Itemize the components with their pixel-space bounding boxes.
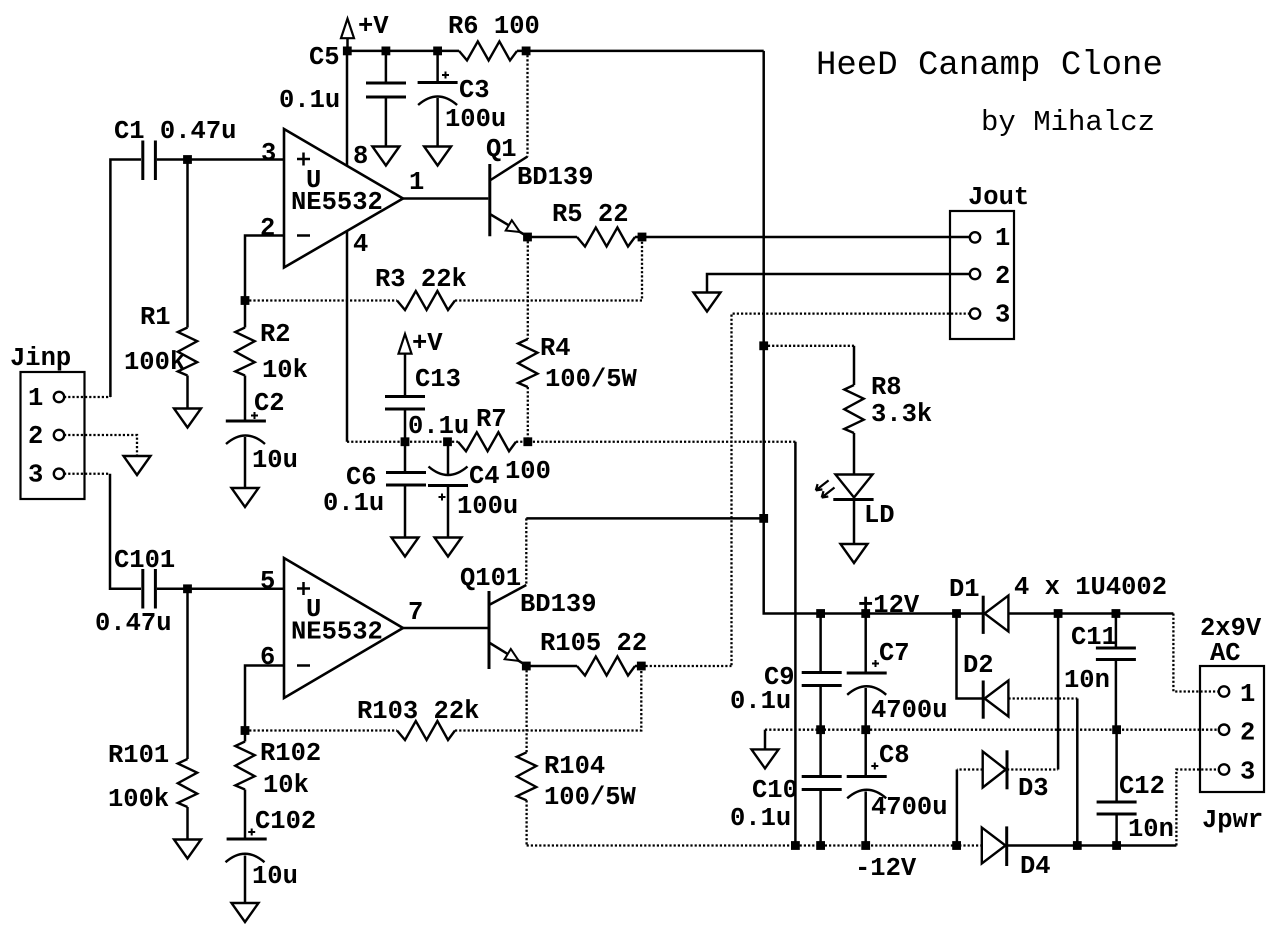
node C10 bottom: [816, 841, 825, 850]
svg-text:Q101: Q101: [460, 564, 521, 593]
wire R1 to ground: [186, 376, 189, 409]
svg-text:10k: 10k: [262, 356, 308, 385]
capacitor C6: [386, 443, 426, 537]
svg-text:C102: C102: [255, 807, 316, 836]
svg-text:C11: C11: [1071, 623, 1117, 652]
svg-text:Jinp: Jinp: [10, 344, 71, 373]
LED LD: [816, 475, 874, 500]
wire Q101 collector to +V vertical: [526, 517, 763, 520]
Jinp pin 2 stub: [64, 435, 137, 456]
svg-text:-12V: -12V: [855, 854, 917, 883]
output connector Jout: [950, 211, 1014, 339]
svg-text:100k: 100k: [124, 348, 185, 377]
svg-text:7: 7: [408, 598, 423, 627]
diode D1: [983, 596, 1008, 634]
svg-text:0.1u: 0.1u: [730, 687, 791, 716]
svg-text:100: 100: [505, 457, 551, 486]
node C12 bottom: [1112, 841, 1121, 850]
node D3 anode tap: [952, 841, 961, 850]
svg-text:10n: 10n: [1064, 666, 1110, 695]
capacitor C102: [226, 829, 267, 863]
svg-text:Q1: Q1: [486, 135, 517, 164]
+V rail top: [347, 50, 459, 53]
node Q1 emitter: [523, 233, 532, 242]
wire R6 to +V vertical: [517, 50, 764, 53]
ground: [424, 147, 451, 166]
node C9/C10: [816, 725, 825, 734]
node D3 cathode tap: [1054, 609, 1063, 618]
svg-text:R3 22k: R3 22k: [375, 265, 467, 294]
wire R101 lead: [186, 589, 189, 759]
wire R101 to ground: [186, 807, 189, 839]
Jout pin 3 wire: [732, 314, 971, 666]
capacitor C5: [366, 51, 406, 146]
capacitor C12: [1097, 731, 1137, 846]
node -V feed: [791, 841, 800, 850]
svg-text:0.1u: 0.1u: [323, 489, 384, 518]
svg-text:100u: 100u: [445, 105, 506, 134]
svg-text:0.1u: 0.1u: [279, 86, 340, 115]
resistor R103: [397, 721, 455, 740]
wire pin 6 stub: [245, 666, 284, 731]
Jinp pin 2: [54, 430, 64, 440]
transistor Q101: [489, 585, 526, 669]
Jout pin 2: [970, 269, 980, 279]
svg-text:100u: 100u: [457, 492, 518, 521]
capacitor C2: [226, 412, 266, 444]
+V symbol top: [341, 19, 354, 51]
Jout pin 1: [970, 232, 980, 242]
svg-text:1: 1: [1240, 680, 1255, 709]
svg-text:0.1u: 0.1u: [408, 412, 469, 441]
svg-text:C12: C12: [1119, 772, 1165, 801]
node C7/C8: [861, 725, 870, 734]
-12V rail: [527, 844, 982, 846]
svg-text:10u: 10u: [252, 446, 298, 475]
ground: [124, 456, 151, 475]
svg-text:LD: LD: [864, 501, 895, 530]
diode D3: [983, 750, 1007, 789]
node output ch2: [637, 662, 646, 671]
resistor R1: [178, 328, 197, 376]
svg-text:AC: AC: [1210, 639, 1241, 668]
wire -V feed vertical: [794, 442, 797, 846]
resistor R104: [517, 752, 536, 800]
AC2 rail: [1007, 844, 1177, 847]
resistor R3: [397, 291, 455, 310]
wire C1 to op-amp pin 3: [157, 158, 284, 161]
wire op-amp output to Q1 base: [403, 197, 488, 200]
resistor R8: [844, 346, 863, 474]
svg-text:R7: R7: [476, 405, 507, 434]
ground: [174, 840, 201, 859]
AC1 rail: [1008, 612, 1173, 615]
node C5: [382, 47, 391, 56]
op-amp U1 plus: [297, 153, 310, 166]
svg-text:R102: R102: [260, 739, 321, 768]
+V symbol middle: [399, 334, 412, 396]
capacitor C10: [802, 731, 842, 846]
svg-text:10n: 10n: [1128, 815, 1174, 844]
node Q101 emitter: [522, 662, 531, 671]
ground: [841, 544, 868, 563]
svg-text:100/5W: 100/5W: [545, 365, 638, 394]
svg-text:3: 3: [995, 301, 1010, 330]
svg-text:8: 8: [353, 142, 368, 171]
svg-text:10u: 10u: [252, 862, 298, 891]
svg-text:D4: D4: [1020, 852, 1051, 881]
resistor R4: [518, 339, 537, 387]
wire C2 to ground: [244, 437, 247, 488]
svg-text:NE5532: NE5532: [291, 618, 383, 647]
svg-text:3: 3: [261, 139, 276, 168]
node R6 right: [522, 47, 531, 56]
wire pin 4 down: [346, 232, 349, 442]
node output ch1: [638, 233, 647, 242]
capacitor C7: [847, 614, 887, 730]
-V rail right segment: [516, 441, 795, 443]
+V vertical rail: [764, 51, 984, 614]
transistor Q1: [490, 157, 528, 237]
svg-text:NE5532: NE5532: [291, 188, 383, 217]
Jpwr pin 3: [1219, 764, 1229, 774]
wire pin 2 stub: [245, 236, 284, 301]
svg-text:3.3k: 3.3k: [871, 400, 932, 429]
node after C1: [183, 155, 192, 164]
svg-text:C10: C10: [752, 776, 798, 805]
wire emitter to R105: [526, 665, 577, 668]
node C11/C12: [1112, 725, 1121, 734]
svg-text:3: 3: [1240, 758, 1255, 787]
node feedback ch1: [241, 296, 250, 305]
Jpwr pin 2: [1219, 725, 1229, 735]
R4 lower lead: [527, 387, 529, 442]
capacitor C4: [428, 443, 468, 537]
wire Q1 collector to +V rail: [526, 51, 528, 157]
wire C101 to op-amp pin 5: [157, 588, 284, 591]
svg-text:D2: D2: [963, 651, 994, 680]
svg-text:R1: R1: [140, 303, 171, 332]
capacitor C13: [385, 397, 425, 442]
svg-text:100/5W: 100/5W: [544, 783, 637, 812]
capacitor C8: [847, 731, 887, 846]
svg-text:C5: C5: [309, 43, 340, 72]
GND center rail: [765, 729, 1219, 731]
resistor R7: [458, 432, 516, 451]
svg-text:R103 22k: R103 22k: [357, 697, 479, 726]
wire R5 to Jout pin 1: [635, 236, 970, 239]
capacitor C1: [143, 141, 156, 181]
capacitor C11: [1096, 614, 1136, 730]
svg-text:+V: +V: [412, 329, 443, 358]
wire output node to Jout pin3 vertical: [641, 665, 731, 667]
node C11 top: [1112, 609, 1121, 618]
node after C101: [183, 584, 192, 593]
svg-text:C3: C3: [459, 76, 490, 105]
Jout pin 3: [970, 308, 980, 318]
ground: [372, 147, 399, 166]
svg-text:R105 22: R105 22: [540, 629, 647, 658]
svg-text:5: 5: [260, 567, 275, 596]
ground: [174, 409, 201, 428]
Jinp pin 3 stub: [64, 473, 110, 475]
svg-text:C1 0.47u: C1 0.47u: [114, 117, 236, 146]
svg-text:R8: R8: [871, 373, 902, 402]
resistor R2: [235, 302, 254, 421]
resistor R6: [459, 41, 517, 60]
svg-text:Jout: Jout: [968, 183, 1029, 212]
diode D2: [957, 614, 1009, 719]
svg-text:1: 1: [995, 224, 1010, 253]
wire Jinp pin 3 to C101: [110, 474, 141, 589]
node R8 tap: [759, 341, 768, 350]
wire R8 tap: [764, 345, 854, 347]
svg-text:C2: C2: [254, 389, 285, 418]
wire D3 anode to -12V: [957, 770, 983, 846]
svg-text:R5 22: R5 22: [552, 200, 629, 229]
node Q101 collector join: [759, 514, 768, 523]
node D2 anode join: [1073, 841, 1082, 850]
node C7 top: [861, 609, 870, 618]
wire D2 anode to AC2: [1008, 699, 1077, 846]
capacitor C3: [418, 51, 458, 146]
wire feedback ch2 left segment: [245, 729, 397, 731]
svg-text:C7: C7: [879, 639, 910, 668]
svg-text:0.47u: 0.47u: [95, 609, 172, 638]
svg-text:R6 100: R6 100: [448, 12, 540, 41]
capacitor C9: [802, 614, 842, 730]
svg-text:4: 4: [353, 230, 368, 259]
input connector Jinp: [21, 372, 85, 499]
wire feedback ch2 right segment: [455, 666, 641, 731]
svg-text:+V: +V: [358, 12, 389, 41]
wire R105 to output node: [635, 665, 641, 668]
ground: [232, 488, 259, 507]
svg-text:2: 2: [1240, 719, 1255, 748]
svg-text:1: 1: [409, 168, 424, 197]
wire feedback left segment: [245, 299, 397, 301]
wire op-amp output to Q101 base: [403, 627, 488, 630]
svg-text:R2: R2: [260, 320, 291, 349]
node C4: [443, 437, 452, 446]
svg-text:0.1u: 0.1u: [730, 804, 791, 833]
capacitor C101: [143, 569, 156, 609]
svg-text:C101: C101: [114, 546, 175, 575]
svg-text:2: 2: [995, 262, 1010, 291]
op-amp U1 triangle: [284, 129, 403, 268]
Jinp pin 3: [54, 469, 64, 479]
op-amp U1b minus: [297, 664, 310, 667]
resistor R5: [577, 228, 635, 247]
ground: [435, 538, 462, 557]
svg-text:3: 3: [28, 461, 43, 490]
wire C102 to ground: [244, 856, 247, 903]
svg-text:C6: C6: [346, 463, 377, 492]
svg-text:R101: R101: [108, 741, 169, 770]
wire feedback right segment: [455, 237, 642, 301]
wire pin 8 to +V rail: [346, 51, 349, 166]
svg-text:C8: C8: [879, 741, 910, 770]
wire D3 cathode to +12V: [1007, 614, 1058, 770]
Jinp pin 1: [54, 392, 64, 402]
node pin8 rail: [343, 47, 352, 56]
svg-text:R104: R104: [544, 752, 605, 781]
node D2 cathode tap: [952, 609, 961, 618]
wire input left to C1: [110, 160, 141, 398]
op-amp U1 minus: [297, 234, 310, 237]
svg-text:HeeD Canamp Clone: HeeD Canamp Clone: [816, 47, 1163, 85]
node C13: [401, 437, 410, 446]
Jinp pin 1 stub: [64, 396, 110, 398]
node C8 bottom: [861, 841, 870, 850]
svg-text:D1: D1: [949, 575, 980, 604]
resistor R4 leads: [527, 237, 529, 339]
ground: [694, 293, 721, 312]
svg-text:1: 1: [28, 384, 43, 413]
node C3: [433, 47, 442, 56]
resistor R101: [178, 759, 197, 807]
svg-text:4 x 1U4002: 4 x 1U4002: [1014, 573, 1167, 602]
svg-text:Jpwr: Jpwr: [1202, 806, 1263, 835]
resistor R105: [577, 657, 635, 676]
svg-text:2: 2: [260, 214, 275, 243]
ground: [392, 538, 419, 557]
svg-text:C4: C4: [469, 462, 500, 491]
svg-text:by Mihalcz: by Mihalcz: [981, 106, 1155, 139]
wire AC1 to Jpwr pin 1: [1173, 614, 1219, 692]
Jout pin 2 wire to ground: [707, 274, 970, 293]
wire Q101 collector up: [525, 518, 527, 585]
svg-text:C13: C13: [415, 365, 461, 394]
svg-text:100k: 100k: [108, 785, 169, 814]
node R4 bottom: [523, 437, 532, 446]
resistor R104 leads: [525, 666, 527, 752]
svg-text:D3: D3: [1018, 774, 1049, 803]
svg-text:R4: R4: [540, 334, 571, 363]
svg-text:BD139: BD139: [520, 590, 597, 619]
svg-text:2: 2: [28, 422, 43, 451]
wire LED to ground: [853, 501, 856, 545]
wire emitter to R5: [528, 236, 578, 239]
diode D4: [982, 826, 1007, 866]
wire AC2 to Jpwr pin 3: [1176, 770, 1219, 846]
svg-text:6: 6: [260, 643, 275, 672]
power connector Jpwr: [1200, 666, 1264, 792]
ground symbol center: [752, 730, 779, 769]
op-amp U1b plus: [297, 582, 310, 595]
wire R1 lead: [186, 160, 189, 328]
R104 lower lead: [525, 800, 527, 845]
node feedback ch2: [241, 726, 250, 735]
svg-text:4700u: 4700u: [871, 696, 948, 725]
node C9 top: [816, 609, 825, 618]
ground: [232, 903, 259, 922]
Jpwr pin 1: [1219, 686, 1229, 696]
svg-text:BD139: BD139: [517, 163, 594, 192]
-V rail left segment: [347, 441, 458, 443]
svg-text:10k: 10k: [263, 771, 309, 800]
resistor R102: [235, 732, 254, 839]
svg-text:4700u: 4700u: [871, 793, 948, 822]
op-amp U1b triangle: [284, 558, 403, 698]
